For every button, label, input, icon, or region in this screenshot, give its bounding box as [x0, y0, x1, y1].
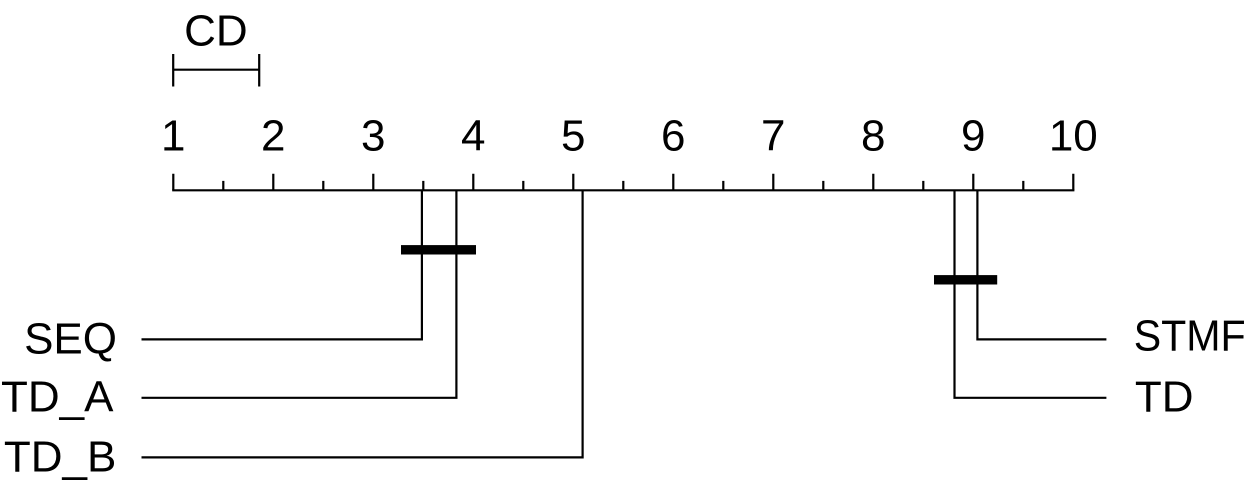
TD_A line — [142, 190, 457, 397]
svg-text:9: 9 — [961, 112, 985, 161]
major ticks — [173, 174, 1073, 191]
svg-text:2: 2 — [261, 112, 285, 161]
STMF line — [977, 190, 1106, 339]
svg-text:1: 1 — [161, 112, 185, 161]
svg-text:STMF: STMF — [1134, 312, 1246, 361]
svg-text:10: 10 — [1049, 112, 1098, 161]
svg-text:TD_A: TD_A — [1, 372, 114, 421]
svg-text:7: 7 — [761, 112, 785, 161]
CD bracket — [172, 54, 260, 87]
svg-text:8: 8 — [861, 112, 885, 161]
svg-text:4: 4 — [461, 112, 485, 161]
TD line — [955, 190, 1107, 397]
svg-text:5: 5 — [561, 112, 585, 161]
svg-text:TD_B: TD_B — [4, 432, 116, 481]
svg-text:6: 6 — [661, 112, 685, 161]
svg-text:CD: CD — [184, 7, 248, 56]
SEQ line — [142, 190, 422, 339]
svg-text:TD: TD — [1135, 373, 1194, 422]
axis line — [172, 189, 1074, 191]
clique bar left — [401, 245, 476, 254]
clique bar right — [934, 275, 997, 284]
svg-text:SEQ: SEQ — [24, 314, 117, 363]
minor ticks — [223, 181, 1023, 190]
TD_B line — [142, 190, 583, 457]
svg-text:3: 3 — [361, 112, 385, 161]
